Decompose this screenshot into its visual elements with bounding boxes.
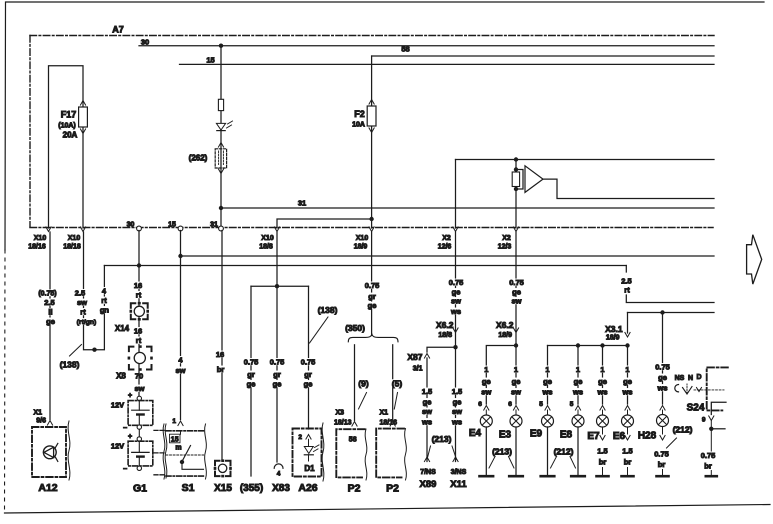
svg-text:ge: ge [543,377,552,386]
svg-text:−: − [123,466,127,473]
svg-text:X6.2: X6.2 [496,320,514,330]
svg-text:18/18: 18/18 [63,244,81,251]
svg-text:15: 15 [171,436,179,443]
svg-text:(138): (138) [60,360,80,370]
svg-text:1: 1 [625,365,629,374]
svg-text:ge: ge [46,317,55,326]
wire H28 ground stub [662,470,664,475]
wire branch to X10 18/8 [277,219,372,228]
ground E8 [571,475,585,478]
wire 30 bus [139,45,714,47]
wire drop X2 12/6 [455,160,457,229]
S24 contact [675,385,679,392]
svg-text:X89: X89 [420,479,437,490]
label (0.75) 2.5 li ge [38,289,58,296]
pin arrow S24 [709,416,714,421]
arrow into option box [218,143,223,148]
pin arrow E8 [575,406,580,411]
connector ring 30 [137,226,142,231]
svg-text:0.75: 0.75 [365,281,380,290]
svg-text:18/8: 18/8 [259,244,273,251]
svg-text:15: 15 [206,56,214,65]
lamp E8 [572,415,584,427]
svg-text:4: 4 [277,471,281,478]
torn-edge bracket A12 [68,421,70,480]
pointer line to (138) at A26 [310,317,329,343]
svg-text:16: 16 [134,281,142,290]
off-page arrow right [747,235,762,284]
wire E7 ground stub [602,468,604,475]
svg-text:0.75: 0.75 [655,363,670,372]
svg-text:18/9: 18/9 [498,332,512,339]
svg-text:1: 1 [576,365,580,374]
svg-text:ge: ge [368,301,377,310]
svg-text:1.5: 1.5 [452,387,462,396]
svg-text:X2: X2 [442,235,451,242]
terminal ring G1 top [137,396,141,400]
outer border (bottom, slightly slanted as in scan) [5,505,771,514]
svg-text:1: 1 [514,365,518,374]
connector ring 15 [178,226,183,231]
wire branch to X87 [427,347,456,352]
wire S24 to ground [710,429,712,451]
dash-dot boundary A7 (left edge) [29,36,31,227]
junction wire15 [178,254,182,258]
svg-text:P2: P2 [348,483,361,495]
svg-text:58: 58 [349,437,357,444]
svg-text:br: br [658,460,666,469]
svg-text:12V: 12V [111,401,124,410]
wire 58 bus [372,55,714,57]
wire to E9 [547,346,549,405]
svg-text:sw: sw [481,388,491,397]
svg-text:(350): (350) [345,323,365,333]
wire E4 to ground [485,427,487,475]
svg-text:18/13: 18/13 [334,420,352,427]
svg-text:sw: sw [422,407,432,416]
pointer (9) [359,393,367,410]
label 1 ge ws (E9) [545,366,550,373]
svg-text:sw: sw [134,384,144,393]
connector arrow X10 18/16 [46,227,51,232]
wire 30 to battery [138,231,140,397]
svg-text:0.75: 0.75 [701,451,716,460]
pin arrow into P2 left [352,422,357,427]
svg-text:3/NS: 3/NS [451,469,467,476]
torn-edge bracket G1 [165,424,167,478]
svg-text:rt: rt [136,291,142,300]
junction buzzer [514,157,518,161]
wire X2 12/6 below rail [455,232,457,347]
wire 58 below rail [371,232,373,336]
battery G1 cell 2 [128,441,153,466]
buzzer horn triangle [525,166,543,193]
inline connector arrow X6.2 18/8 [453,328,458,333]
junction S24 ground [710,421,712,429]
fuse F2 [369,100,374,105]
svg-text:S1: S1 [182,482,195,494]
svg-text:ge: ge [574,377,583,386]
svg-text:E3: E3 [499,430,512,441]
splice brace 350 [348,334,398,342]
svg-text:ge: ge [623,377,632,386]
splice junction 138 [92,348,96,352]
svg-text:G1: G1 [133,483,147,495]
svg-text:30: 30 [141,38,149,47]
terminal ring G1 mid [137,425,141,429]
svg-text:D: D [696,374,701,381]
svg-text:N: N [688,375,693,382]
pointer line to (138) [70,345,82,357]
connector X83 socket [274,464,283,468]
svg-text:X10: X10 [261,235,274,242]
svg-text:18/8: 18/8 [438,332,452,339]
svg-text:X1: X1 [379,410,388,417]
junction E6 [625,343,629,347]
pin arrow E7 [600,406,605,411]
battery G1 cell 1 [128,401,153,426]
label 16 rt (upper) [133,282,142,289]
wire to X89 [426,358,428,462]
junction E4/E3 [514,343,518,347]
svg-text:−: − [123,425,127,432]
svg-text:X10: X10 [68,235,81,242]
connector arrow X2 12/6 [453,227,458,232]
svg-text:7/NS: 7/NS [420,469,436,476]
svg-text:gr: gr [247,370,255,379]
connector ring 31 [219,226,224,231]
svg-text:X15: X15 [214,483,232,494]
component box A12 [32,427,66,477]
junction E7 [600,343,604,347]
junction split [275,284,279,288]
svg-text:ge: ge [247,380,256,389]
inline connector arrow X3.1 18/9 [625,332,630,337]
svg-text:1: 1 [545,365,549,374]
pointer arms (213) [427,446,431,460]
S1 switch blade [180,431,182,434]
wire 15 bus [180,63,715,65]
optional component box (262) [215,149,226,168]
connector arrow X10 18/8 [274,227,279,232]
svg-text:(0.75): (0.75) [38,291,56,298]
pin arrow E3 [513,406,518,411]
wire 2.5rt gap upper [625,266,627,273]
battery link [138,429,140,437]
svg-text:X10: X10 [34,235,47,242]
svg-text:0.75: 0.75 [449,278,464,287]
inline connector arrow X6.2 18/9 [513,328,518,333]
svg-text:rt: rt [136,336,142,345]
svg-text:9: 9 [702,417,706,424]
lamp E6 [622,415,634,427]
svg-text:rt: rt [101,296,107,305]
svg-text:br: br [599,458,607,467]
label 2.5 rt [621,277,633,284]
wire to A12 [49,232,51,420]
ground E6 [622,475,634,478]
torn-edge bracket A26 [322,423,324,481]
junction F2 branch [369,217,373,221]
connector arrow X2 12/3 [513,227,518,232]
wire E9 to ground [547,427,549,475]
svg-text:2: 2 [298,434,302,441]
svg-text:3/1: 3/1 [413,365,423,372]
end arrow X89 [424,457,429,462]
label 0.75 ge sw [508,279,524,286]
wire E6 ground stub [627,468,629,475]
svg-text:ge: ge [423,398,432,407]
wire lamp rail E9-E6 [548,345,628,347]
svg-text:2.5: 2.5 [75,289,85,298]
svg-text:F2: F2 [354,109,365,119]
pointer (5) [394,393,397,410]
wire to E8 [577,346,579,405]
svg-text:1: 1 [600,365,604,374]
svg-text:gr: gr [368,292,376,301]
outer border (left, lower dashed part) [4,250,7,513]
svg-text:H28: H28 [638,431,657,442]
svg-text:A26: A26 [298,482,317,494]
svg-text:sw: sw [175,366,185,375]
junction E8 [576,343,580,347]
svg-text:(rt/gn): (rt/gn) [77,319,97,326]
svg-text:ge: ge [482,377,491,386]
svg-text:ws: ws [572,388,583,397]
wire 15 to S1 [180,231,182,420]
wire E6 down arrow [627,427,629,434]
torn-edge bracket S1 right [205,424,207,479]
pointer arms (213) lamps [489,457,495,469]
fuse F17 [80,101,85,106]
junction H28 feed [660,310,664,314]
wire F17 loop [49,66,84,228]
svg-text:12/3: 12/3 [498,244,512,251]
svg-text:5: 5 [539,401,543,408]
label 2.5 sw rt (rt/gn) [74,289,86,296]
junction X89 branch [453,345,457,349]
wire 31 to X15 [221,231,223,461]
svg-text:16: 16 [216,350,224,359]
wire 2.5rt to right edge [626,295,714,303]
wire drop X3.1 [627,313,629,334]
svg-text:20A: 20A [63,131,78,140]
pointer arms (212) lamps [551,457,557,469]
svg-text:0.75: 0.75 [654,450,669,459]
ground E3 [509,475,523,478]
wire X10 18/18 to splice [84,232,105,350]
svg-text:X8: X8 [116,372,126,381]
wire to E7 [602,346,604,405]
svg-text:ge: ge [658,373,667,382]
lamp H28 [657,415,669,427]
wire to H28 [662,313,664,405]
outer border (top and left) [5,2,764,250]
svg-text:(355): (355) [240,483,263,494]
svg-text:rt: rt [624,286,630,295]
connector arrow X10 18/18 [80,227,85,232]
wire E7 down arrow [602,427,604,434]
svg-text:(9): (9) [358,379,369,389]
svg-text:1.5: 1.5 [622,447,632,456]
svg-text:rt: rt [80,308,86,317]
svg-text:18/16: 18/16 [28,244,46,251]
label 0.75 gr ge (355 wire) [243,358,259,365]
svg-text:(212): (212) [673,425,693,435]
svg-text:m: m [175,445,181,452]
junction wire30/X14 [137,263,141,267]
arrow out of option box [218,169,223,174]
pin arrow H28 [660,406,665,411]
svg-text:D1: D1 [304,464,315,473]
svg-text:ws: ws [421,418,432,427]
end arrow X11 [453,457,458,462]
svg-text:1.5: 1.5 [597,447,607,456]
label 1.5 br (E6) [622,447,633,454]
svg-text:X83: X83 [272,483,290,494]
svg-text:ge: ge [453,398,462,407]
S1 terminal 15 label [170,434,181,443]
lamp E4 [480,415,492,427]
label 0.75 gr ge (A26 wire) [300,358,316,365]
svg-text:ws: ws [451,418,462,427]
wire E3 to ground [515,427,517,475]
label 1 ge sw (E3) [514,366,519,373]
pin arrow into P2 right [390,422,395,427]
svg-text:S24: S24 [687,403,705,414]
junction LED branch to wire 31 [219,206,223,210]
svg-text:18/9: 18/9 [606,334,620,341]
ground S24 [706,475,717,478]
svg-text:gr: gr [273,370,281,379]
svg-text:ws: ws [450,307,461,316]
wire LED branch to rail [220,208,222,226]
lamp E7 [597,415,609,427]
svg-text:30: 30 [127,222,135,229]
svg-text:6: 6 [508,401,512,408]
component box S24 (partial) [707,367,728,410]
svg-text:0.75: 0.75 [509,278,524,287]
wire X3.1 feed [628,312,715,314]
wire to E6 [627,346,629,405]
label sw at battery [135,385,145,392]
torn-edge bracket S1 left [163,424,165,479]
svg-text:A12: A12 [38,482,57,494]
svg-text:A7: A7 [112,25,124,35]
svg-text:X11: X11 [450,479,467,490]
svg-text:5: 5 [570,401,574,408]
wire 58 drop to F2 [371,56,373,228]
svg-text:18/9: 18/9 [354,244,368,251]
ground H28 [657,475,669,478]
terminal ring G1 bottom [137,466,141,470]
svg-text:E4: E4 [469,428,482,439]
wire S24 ground stub [710,471,712,475]
svg-text:15: 15 [168,222,176,229]
wire to P2 right [392,345,394,421]
wire branch to E4 [486,346,516,405]
label 0.75 gr ge (58 wire) [364,282,380,289]
pin arrow into S1 [178,421,183,426]
wire drop X2 12/3 [515,160,517,229]
svg-text:sw: sw [511,388,521,397]
ignition switch S1 box [166,430,204,432]
svg-text:58: 58 [401,45,409,54]
label (5) [391,379,403,387]
wire X10 18/8 drop [276,232,278,286]
svg-text:F17: F17 [61,110,77,120]
S24 link dotted [694,389,724,391]
connector X8 [129,347,152,370]
wire to P2 left [354,345,356,421]
label 0.75 br (S24) [700,452,716,459]
ground E4 [480,475,494,478]
svg-text:70: 70 [135,372,143,381]
svg-text:ws: ws [596,388,607,397]
terminal ring G1 mid2 [137,437,141,441]
svg-text:sw: sw [77,298,87,307]
svg-text:sw: sw [511,297,521,306]
svg-text:(10A): (10A) [58,123,76,130]
label 0.75 ge ws (H28) [654,363,670,370]
S24 second contact [697,388,702,392]
svg-text:0.75: 0.75 [270,358,285,367]
svg-text:1: 1 [484,365,488,374]
pin arrow into A12 [47,421,52,426]
svg-text:E7: E7 [587,431,600,442]
svg-text:2.5: 2.5 [44,298,54,307]
pointer (212) H28 [667,438,677,448]
wire 31 bus [221,207,714,209]
svg-text:X10: X10 [356,235,369,242]
label (9) [358,379,370,387]
svg-text:9/6: 9/6 [36,418,46,425]
S24 wiper [683,387,693,395]
pin arrow E6 [625,406,630,411]
svg-text:E6: E6 [613,431,626,442]
component box A26 [293,429,322,477]
svg-text:ge: ge [452,288,461,297]
instrument cluster P2 left box [336,429,364,477]
svg-text:(262): (262) [189,154,208,163]
wire to A26 [308,286,310,429]
svg-text:16: 16 [134,327,142,336]
wire to E3 [515,346,517,405]
svg-text:br: br [217,365,225,374]
label 16 br [215,351,224,358]
svg-text:E9: E9 [530,429,543,440]
svg-text:P2: P2 [386,483,399,495]
wire E8 to ground [577,427,579,475]
resistor of buzzer U1 [514,167,518,171]
wire H28 down arrow [662,427,664,435]
svg-text:+: + [128,434,132,441]
wire split bar [251,285,309,287]
lamp E3 [510,415,522,427]
resistor in LED branch [218,99,223,110]
ground E9 [541,475,555,478]
svg-text:ge: ge [598,377,607,386]
junction on wire 30 [219,44,223,48]
svg-text:gn: gn [100,306,110,315]
wire X2 12/3 below rail [515,232,517,346]
svg-text:X6.2: X6.2 [436,320,454,330]
buzzer bracket [516,170,523,190]
svg-text:X87: X87 [407,352,422,362]
svg-text:X3.1: X3.1 [605,324,623,334]
svg-text:ge: ge [304,380,313,389]
S24 pin stub [711,402,726,414]
